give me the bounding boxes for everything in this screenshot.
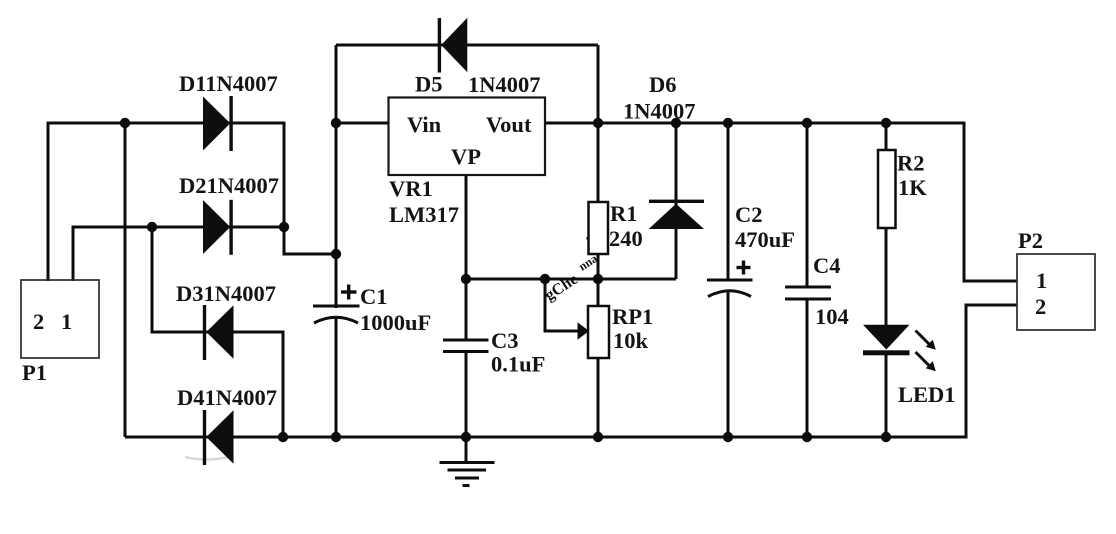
svg-text:1: 1 [1036, 268, 1047, 293]
svg-text:RP1: RP1 [612, 304, 653, 329]
svg-text:104: 104 [815, 304, 849, 329]
svg-text:R2: R2 [897, 151, 925, 176]
svg-text:D31N4007: D31N4007 [176, 281, 276, 306]
svg-text:P2: P2 [1018, 228, 1043, 253]
svg-text:470uF: 470uF [735, 227, 795, 252]
svg-text:P1: P1 [22, 360, 47, 385]
svg-text:0.1uF: 0.1uF [491, 352, 545, 377]
svg-text:1K: 1K [898, 175, 927, 200]
svg-text:Vout: Vout [486, 112, 532, 137]
svg-text:10k: 10k [613, 328, 649, 353]
svg-text:LM317: LM317 [389, 202, 459, 227]
svg-text:Vin: Vin [407, 112, 442, 137]
svg-text:D6: D6 [649, 72, 677, 97]
svg-text:D21N4007: D21N4007 [179, 173, 279, 198]
svg-text:C2: C2 [735, 202, 763, 227]
svg-text:2: 2 [1035, 294, 1046, 319]
svg-text:240: 240 [609, 226, 643, 251]
svg-text:1N4007: 1N4007 [623, 99, 696, 124]
svg-text:D11N4007: D11N4007 [179, 71, 278, 96]
svg-text:2: 2 [33, 309, 44, 334]
svg-text:C3: C3 [491, 328, 519, 353]
svg-text:R1: R1 [610, 201, 638, 226]
svg-text:LED1: LED1 [898, 382, 956, 407]
svg-text:D41N4007: D41N4007 [177, 385, 277, 410]
svg-text:1: 1 [61, 309, 72, 334]
svg-text:C1: C1 [360, 284, 388, 309]
svg-text:C4: C4 [813, 253, 841, 278]
svg-text:1000uF: 1000uF [360, 310, 431, 335]
svg-text:1N4007: 1N4007 [468, 72, 541, 97]
svg-text:D5: D5 [415, 72, 443, 97]
svg-text:VR1: VR1 [389, 176, 433, 201]
svg-text:VP: VP [451, 144, 481, 169]
